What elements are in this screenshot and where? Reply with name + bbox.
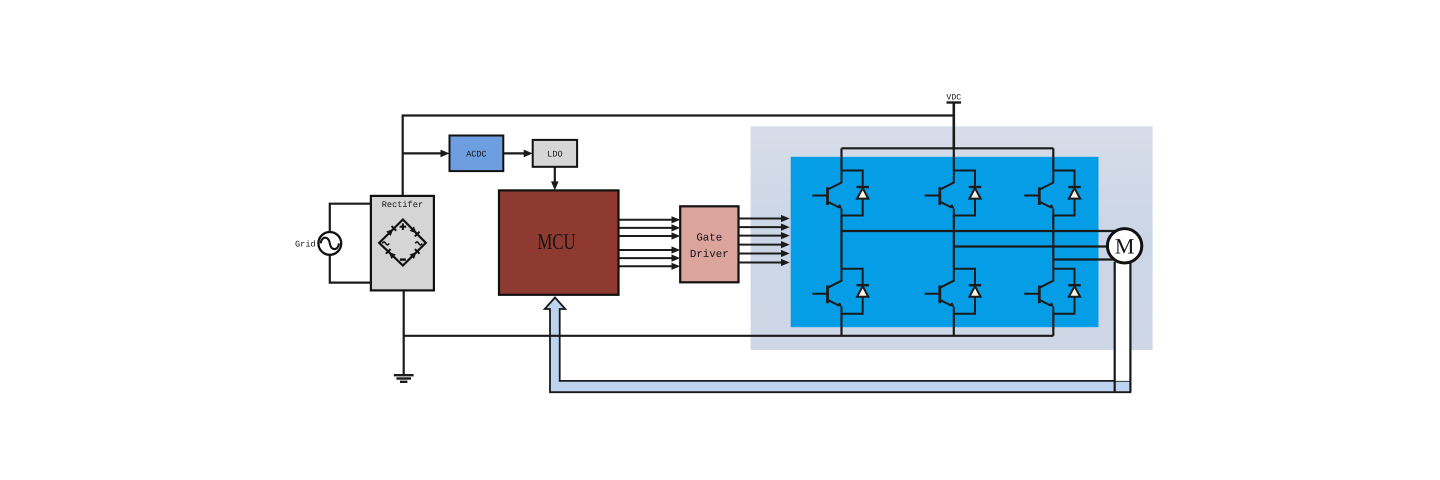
- svg-text:M: M: [1115, 234, 1135, 259]
- ground: [394, 375, 414, 382]
- svg-text:VDC: VDC: [946, 94, 961, 103]
- motor M: [1107, 229, 1141, 263]
- phase wire B to motor: [954, 245, 1124, 247]
- pipe left wall: [1114, 262, 1116, 392]
- IGBT Q6 with diode (leg3 bottom): [1024, 269, 1081, 314]
- svg-text:Rectifer: Rectifer: [382, 200, 423, 210]
- svg-text:ACDC: ACDC: [466, 150, 487, 160]
- wire: AC source top to rectifier: [330, 204, 371, 233]
- MCU block: [499, 190, 619, 294]
- svg-text:Driver: Driver: [690, 249, 729, 261]
- motor feedback pipe (white channel from motor down to band): [1115, 262, 1131, 381]
- bridge leg 3 vertical: [1052, 148, 1054, 170]
- wire: top DC bus from rectifier to VDC: [403, 116, 954, 196]
- bridge diode D1 (top-left, points to +): [386, 226, 396, 236]
- bridge top rail: [842, 147, 1054, 149]
- AC source (grid): [318, 232, 341, 255]
- svg-text:LDO: LDO: [547, 150, 562, 160]
- rectifier block: [371, 196, 434, 291]
- bridge - mark: [400, 258, 406, 260]
- bridge leg 2 vertical: [953, 148, 955, 170]
- pipe right wall: [1129, 262, 1131, 392]
- ACDC block: [450, 136, 504, 172]
- inverter outer panel: [751, 126, 1153, 350]
- VDC terminal bar: [947, 101, 962, 103]
- diode bridge diamond: [379, 220, 426, 266]
- IGBT Q3 with diode (leg2 top): [925, 171, 982, 216]
- Gate Driver to inverter signal arrows: [739, 219, 784, 263]
- LDO block: [533, 140, 577, 167]
- bridge ~ left: [382, 242, 389, 245]
- wire: ACDC to LDO with arrow: [503, 152, 526, 154]
- wire: VDC drop to bridge top rail: [952, 103, 955, 151]
- phase wire A to motor: [842, 230, 1125, 232]
- wire: bottom DC bus to bridge bottom rail: [404, 335, 1054, 337]
- IGBT Q4 with diode (leg2 bottom): [925, 269, 982, 314]
- Gate Driver block: [680, 206, 738, 282]
- IGBT Q1 with diode (leg1 top): [812, 171, 869, 216]
- MCU to Gate Driver signal arrows: [619, 220, 674, 266]
- IGBT Q5 with diode (leg3 top): [1024, 171, 1081, 216]
- bridge ~ right: [415, 242, 422, 245]
- inverter inner blue region: [791, 157, 1099, 327]
- svg-text:Gate: Gate: [696, 233, 722, 245]
- feedback band (thick light-blue path from motor to MCU): [545, 298, 1131, 393]
- bridge + mark: [400, 223, 407, 230]
- IGBT Q2 with diode (leg1 bottom): [812, 269, 869, 314]
- svg-text:MCU: MCU: [538, 229, 576, 254]
- bridge leg 1 vertical: [840, 148, 842, 170]
- wire: LDO down to MCU with arrow: [554, 167, 556, 184]
- bridge diode D2 (top-right, points to +): [409, 226, 419, 236]
- bridge diode D4 (bottom-right, points to ~ right): [409, 249, 419, 259]
- bridge diode D3 (bottom-left, points to ~ left): [386, 249, 396, 259]
- wire: rectifier bottom to ground: [403, 290, 405, 374]
- svg-text:Grid: Grid: [295, 240, 316, 250]
- wire: AC source bottom to rectifier: [330, 255, 371, 282]
- phase wire C to motor: [1053, 258, 1124, 260]
- wire: branch to ACDC with arrow: [403, 152, 443, 154]
